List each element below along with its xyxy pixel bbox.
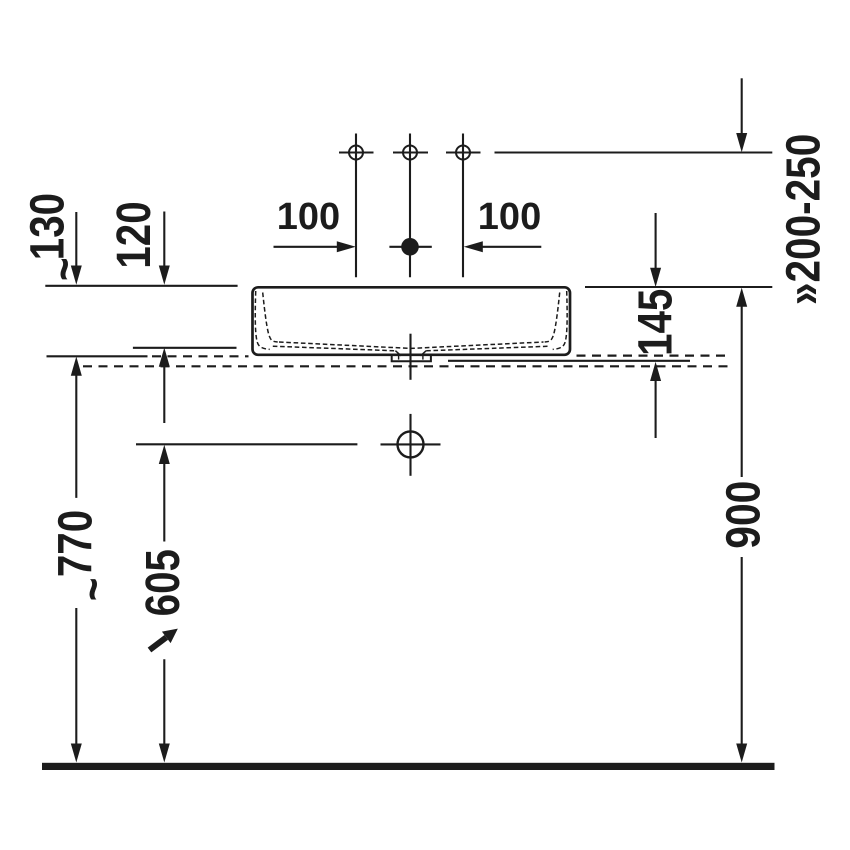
svg-text:~: ~ bbox=[67, 578, 120, 602]
faucet hole circle right bbox=[446, 134, 481, 278]
countertop dashed line lower bbox=[83, 365, 731, 367]
dimension line 605 top arrow bbox=[159, 445, 170, 542]
floor line bbox=[42, 763, 775, 770]
bowl to drain diagonal left bbox=[395, 351, 401, 356]
dimension line 900 top arrow bbox=[736, 288, 747, 477]
countertop dashed line upper left bbox=[152, 355, 249, 357]
dimension line 120 bottom arrow bbox=[159, 348, 170, 423]
bowl to drain diagonal right bbox=[421, 351, 427, 356]
svg-text:~: ~ bbox=[38, 257, 91, 281]
bowl rim upper dashed line bbox=[279, 342, 544, 348]
dimension line 900 bottom arrow bbox=[736, 557, 747, 763]
svg-text:605: 605 bbox=[137, 549, 190, 616]
dimension line ~770 bottom arrow bbox=[71, 608, 82, 763]
svg-text:100: 100 bbox=[478, 196, 541, 238]
drain height reference line bbox=[136, 443, 357, 445]
svg-text:120: 120 bbox=[108, 201, 161, 268]
center reference dot bbox=[389, 238, 431, 256]
dimension 100 right arrow bbox=[464, 241, 542, 252]
dimension line 120 top arrow bbox=[159, 212, 170, 285]
svg-text:900: 900 bbox=[717, 481, 770, 549]
right wall outer dashed line bbox=[553, 291, 567, 349]
dimension line 200-250 top arrow bbox=[736, 78, 747, 152]
washbasin outer body bbox=[253, 287, 571, 355]
extension line for 145 dimension bbox=[448, 360, 690, 362]
dimension 100 left arrow bbox=[274, 241, 356, 252]
left wall outer dashed line bbox=[255, 291, 269, 349]
countertop dashed line upper right bbox=[577, 355, 732, 357]
countertop reference line right bbox=[585, 286, 772, 288]
bowl bottom lower dashed line left bbox=[273, 346, 396, 351]
extension line for 120 dimension bbox=[133, 347, 237, 349]
drain center line bbox=[409, 334, 411, 380]
extension line for 770 dimension bbox=[47, 355, 148, 357]
svg-text:770: 770 bbox=[49, 510, 102, 577]
svg-text:»200-250: »200-250 bbox=[777, 134, 830, 305]
dimension line 605 bottom arrow bbox=[159, 659, 170, 762]
faucet hole circle center bbox=[393, 134, 428, 278]
dimension line 145 top arrow bbox=[650, 213, 661, 287]
svg-text:145: 145 bbox=[629, 289, 682, 356]
dimension line ~130 top arrow bbox=[71, 212, 82, 285]
drain fitting under basin bbox=[392, 356, 431, 361]
right wall inner dashed line bbox=[545, 293, 560, 343]
left wall inner dashed line bbox=[263, 293, 278, 343]
northeast arrow symbol before 605 bbox=[145, 623, 182, 656]
dimension line ~770 top arrow bbox=[71, 357, 82, 498]
faucet hole circle left bbox=[339, 134, 374, 278]
dimension line 145 bottom arrow bbox=[650, 362, 661, 438]
countertop reference line left bbox=[45, 285, 237, 287]
extension line from right hole to 200-250 dimension bbox=[495, 151, 773, 153]
drain outlet circle bbox=[381, 414, 441, 476]
svg-text:130: 130 bbox=[21, 193, 74, 260]
bowl bottom lower dashed line right bbox=[426, 346, 549, 351]
svg-text:100: 100 bbox=[277, 196, 340, 238]
basin inner bowl dashed contour bbox=[255, 291, 567, 351]
